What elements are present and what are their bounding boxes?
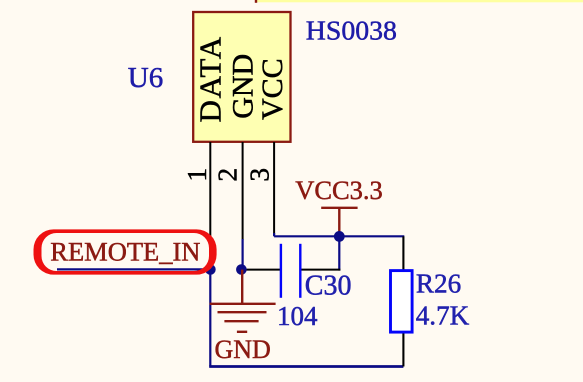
ground bar 4 [237,331,247,333]
highlight bubble around REMOTE_IN [34,229,217,274]
svg-text:U6: U6 [128,62,163,94]
wire: vertical from node A down to bottom rail [209,270,211,367]
svg-text:1: 1 [181,168,212,182]
svg-text:HS0038: HS0038 [306,16,397,47]
svg-text:R26: R26 [416,269,461,299]
junction node on ground net [236,264,247,275]
pin 3 line [273,142,275,235]
junction node A (REMOTE_IN / pin1) [205,264,216,275]
partial component box (cut off at top edge) [255,0,583,3]
svg-text:REMOTE_IN: REMOTE_IN [50,237,200,267]
svg-text:VCC: VCC [256,58,289,120]
svg-text:C30: C30 [305,270,352,301]
resistor R26 bottom pin [402,334,404,367]
svg-text:GND: GND [227,54,260,119]
svg-text:4.7K: 4.7K [416,301,470,331]
ground bar 3 [224,320,258,322]
capacitor C30 right lead [300,269,340,271]
svg-text:2: 2 [212,168,243,182]
wire: pin3 corner stub [273,233,275,236]
IC body U6 (HS0038 receiver) [193,12,290,142]
wire: VCC node down to capacitor lead [338,236,340,270]
svg-text:3: 3 [243,168,274,182]
ground bar 1 [210,303,276,305]
svg-text:GND: GND [215,335,271,364]
svg-text:104: 104 [277,301,318,331]
resistor R26 top pin [402,236,404,270]
capacitor C30 left plate [280,244,282,298]
wire: bottom rail [209,365,403,368]
wire: pin1 vertical below pin [209,239,211,270]
capacitor C30 right plate [299,244,301,298]
wire: REMOTE_IN horizontal [57,268,210,270]
wire: VCC horizontal [274,235,404,237]
power port VCC3.3 bar symbol [321,207,357,209]
ground stem [241,270,243,304]
junction node on VCC net [334,231,345,242]
wire: pin2 vertical to ground node [242,239,244,270]
resistor R26 body [391,271,413,333]
pin 1 line [209,142,211,240]
svg-text:DATA: DATA [193,35,228,122]
capacitor C30 left lead [244,269,281,271]
svg-text:VCC3.3: VCC3.3 [295,175,383,205]
power port VCC3.3 stem [338,208,340,237]
ground bar 2 [218,311,267,313]
pin 2 line [242,142,244,240]
